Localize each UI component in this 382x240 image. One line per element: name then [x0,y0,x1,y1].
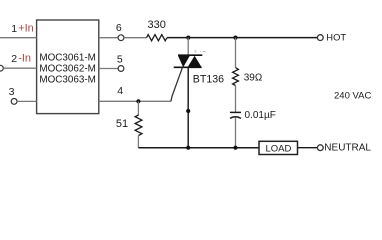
wire pin 4 [99,100,171,102]
resistor R 39ohm zigzag [233,68,239,86]
pin number 5 [117,53,123,65]
node junction snubber bottom on bottom rail [233,146,237,150]
triac Q1 right triangle (up) [188,56,202,67]
resistor 330 label [148,19,166,31]
terminal circle pin 2 [0,65,3,71]
label BT136 [193,73,224,85]
node junction on MT1 vertical [186,109,190,113]
terminal circle HOT [317,35,323,41]
wire pin 6 stub [99,37,119,39]
wire 39ohm to capacitor [235,86,237,113]
label 0.01uF [245,110,276,121]
svg-text:2: 2 [11,53,17,65]
label +In [18,22,34,34]
capacitor C 0.01uF bottom plate (arc) [230,117,241,119]
svg-text:0.01µF: 0.01µF [245,110,276,121]
label MOC3062-M [39,63,96,74]
optocoupler IC U1 MOC3061-M/MOC3062-M/MOC3063-M body box [37,20,99,114]
wire pin 3 [17,100,37,102]
resistor R 51 zigzag [135,115,142,136]
label MOC3063-M [39,75,96,86]
wire R51 top lead [137,101,139,115]
pin number 6 [116,22,122,34]
svg-text:4: 4 [117,85,123,97]
wire top rail resistor to HOT [167,37,317,39]
pin number 4 [117,85,123,97]
LOAD box [259,141,298,154]
svg-text:MOC3061-M: MOC3061-M [39,52,96,63]
wire bottom rail [138,147,259,149]
wire R51 bottom lead [137,136,139,148]
label 240 VAC [334,91,371,102]
faint print artifact marks [195,50,205,52]
wire pin 1 [0,37,37,39]
wire capacitor bottom lead [235,117,237,147]
svg-text:BT136: BT136 [193,73,224,85]
terminal circle pin 5 [118,66,124,72]
label NEUTRAL [324,143,371,154]
svg-text:NEUTRAL: NEUTRAL [324,143,371,154]
svg-text:51: 51 [116,118,128,130]
wire triac MT1 vertical down [187,67,189,147]
svg-text:240 VAC: 240 VAC [334,91,371,102]
wire pin 5 stub [99,68,119,70]
wire pin 2 [3,67,36,69]
triac Q1 top bar MT2 [178,54,202,56]
node junction triac MT1 on bottom rail [186,146,190,150]
label 39ohm [244,72,263,83]
label -In [18,53,31,65]
svg-text:6: 6 [116,22,122,34]
svg-text:MOC3063-M: MOC3063-M [39,75,96,86]
pin number 3 [9,86,15,98]
triac Q1 bottom bar MT1 [174,66,202,68]
wire triac MT2 vertical [187,38,189,56]
wire triac gate diagonal [171,67,183,101]
svg-text:+In: +In [18,22,34,34]
svg-text:39Ω: 39Ω [244,72,263,83]
terminal circle pin 6 [118,35,124,41]
svg-text:5: 5 [117,53,123,65]
node junction triac MT2 on top rail [186,36,190,40]
terminal circle pin 3 [11,99,17,105]
svg-text:-In: -In [18,53,31,65]
triac Q1 left triangle (down) [178,56,190,67]
svg-text:1: 1 [11,23,17,35]
resistor R 51 label [116,118,128,130]
svg-text:330: 330 [148,19,166,31]
resistor R 330 zigzag [147,35,168,41]
wire pin6 circle to resistor [124,37,147,39]
capacitor C 0.01uF top plate [230,111,241,113]
wire snubber top lead [235,38,237,68]
label HOT [326,31,346,42]
svg-text:MOC3062-M: MOC3062-M [39,63,96,74]
svg-text:LOAD: LOAD [266,144,292,155]
label MOC3061-M [39,52,96,63]
node junction pin4 / R51 [136,99,140,103]
wire LOAD to NEUTRAL [298,147,318,149]
terminal circle NEUTRAL [317,145,323,151]
label LOAD [266,144,292,155]
pin number 1 [11,23,17,35]
pin number 2 [11,53,17,65]
svg-text:HOT: HOT [326,31,346,42]
node junction snubber top on top rail [233,36,237,40]
svg-text:3: 3 [9,86,15,98]
